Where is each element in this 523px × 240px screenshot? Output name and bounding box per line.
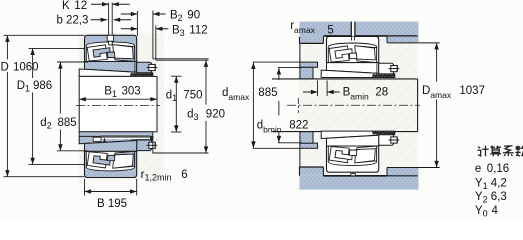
locking screw bbox=[149, 64, 155, 70]
svg-text:750: 750 bbox=[183, 89, 202, 101]
W33 groove and hole in outer ring bbox=[107, 35, 113, 41]
dim B 195 bbox=[84, 179, 86, 196]
washer tab mark bbox=[104, 138, 106, 141]
housing lower right shoulder + Da ref bbox=[386, 168, 388, 176]
guide ring bbox=[350, 150, 357, 156]
svg-text:6: 6 bbox=[181, 169, 187, 181]
right bearing upper half (outline) bbox=[321, 36, 399, 77]
dim d amax 885 bbox=[253, 61, 301, 63]
washer inset (lower) bbox=[101, 135, 150, 139]
hole extension lines bbox=[108, 3, 110, 36]
housing bore line bbox=[323, 35, 387, 37]
lock washer bbox=[134, 140, 136, 151]
housing face to shoulder vertical (lower) bbox=[299, 148, 301, 167]
left roller bbox=[329, 147, 349, 163]
svg-text:6,3: 6,3 bbox=[491, 191, 507, 203]
lock nut bbox=[137, 62, 152, 73]
housing face to shoulder vertical bbox=[299, 43, 301, 62]
svg-text:12: 12 bbox=[74, 0, 87, 12]
guide ring bbox=[108, 52, 115, 58]
housing lower bore line bbox=[323, 175, 387, 177]
lock washer bbox=[134, 62, 136, 73]
guide ring bbox=[350, 53, 357, 59]
svg-text:28: 28 bbox=[375, 87, 388, 99]
lower oil hole notch (mirror) bbox=[351, 174, 356, 176]
housing lower left shoulder bbox=[300, 166, 324, 168]
right bearing lower half (outline mirrored) bbox=[321, 131, 399, 172]
right cage patch bbox=[114, 151, 135, 168]
dim d1 750 bbox=[171, 75, 182, 77]
guide ring bbox=[108, 155, 115, 161]
lock washer bbox=[376, 135, 378, 146]
svg-text:e: e bbox=[475, 163, 481, 175]
left roller bbox=[329, 46, 349, 62]
left cage bar bbox=[93, 48, 110, 57]
adapter sleeve (tapered) bbox=[321, 70, 395, 77]
inner ring (tapered bore) bbox=[85, 141, 137, 152]
dim d3 920 bbox=[205, 60, 207, 104]
right view paper background bbox=[298, 22, 418, 188]
right roller bbox=[355, 46, 376, 60]
outer ring bbox=[327, 36, 379, 62]
right roller bbox=[113, 154, 134, 168]
sleeve thread bbox=[131, 73, 153, 76]
svg-text:885: 885 bbox=[58, 117, 77, 129]
sleeve thread bbox=[373, 74, 395, 77]
dim D1 986 bbox=[29, 47, 85, 49]
svg-text:986: 986 bbox=[33, 80, 52, 92]
dim B1 303 bbox=[79, 98, 157, 100]
svg-text:4: 4 bbox=[492, 205, 499, 217]
dim B3 112 bbox=[155, 26, 157, 61]
inner ring (tapered bore) bbox=[327, 63, 379, 74]
housing left shoulder bbox=[300, 42, 324, 44]
right view centerline bbox=[287, 104, 420, 106]
raceway cavity bbox=[86, 151, 134, 171]
dim B amin 28 bbox=[317, 81, 319, 97]
left cage bar bbox=[335, 150, 352, 159]
svg-text:0,16: 0,16 bbox=[487, 163, 509, 175]
locking screw bbox=[391, 137, 397, 143]
outer ring bbox=[85, 151, 137, 177]
lock nut bbox=[137, 140, 152, 151]
dim B2 90 bbox=[152, 11, 154, 59]
svg-text:4,2: 4,2 bbox=[491, 178, 507, 190]
left roller bbox=[87, 152, 107, 168]
svg-text:303: 303 bbox=[122, 86, 141, 98]
left roller bbox=[87, 45, 107, 61]
housing upper (blue band) bbox=[300, 22, 419, 36]
shaft abutment ring upper (blue) bbox=[300, 62, 318, 67]
lower sleeve strip upper part (blue, against bore) bbox=[79, 132, 153, 137]
inner ring (tapered bore) bbox=[85, 62, 137, 73]
housing lower (blue band) bbox=[300, 176, 419, 190]
svg-text:1060: 1060 bbox=[13, 62, 39, 74]
left view paper background bbox=[78, 33, 164, 180]
lock nut bbox=[379, 135, 394, 146]
centerline left view bbox=[76, 105, 160, 107]
housing right shoulder + Da ref bbox=[386, 36, 388, 43]
lock washer bbox=[376, 63, 378, 74]
right roller bbox=[113, 45, 134, 59]
right cage patch bbox=[114, 45, 135, 62]
dim b 22,3 bbox=[91, 19, 108, 21]
raceway cavity bbox=[86, 42, 134, 62]
right cage patch bbox=[356, 46, 377, 63]
shaft abutment ring lower (blue) bbox=[300, 143, 318, 148]
svg-text:K: K bbox=[62, 0, 70, 12]
outer ring bbox=[85, 35, 137, 61]
dim D 1060 bbox=[4, 34, 85, 36]
svg-text:1037: 1037 bbox=[459, 85, 485, 97]
shaft end face bbox=[417, 79, 419, 132]
left cage bar bbox=[335, 49, 352, 58]
svg-text:b: b bbox=[57, 15, 63, 27]
adapter sleeve (tapered) bbox=[321, 131, 395, 138]
sleeve slit notch bbox=[93, 137, 101, 141]
locking screw bbox=[149, 142, 155, 148]
svg-text:D: D bbox=[1, 62, 9, 74]
outer ring bbox=[327, 146, 379, 172]
shaft surfaces bbox=[272, 78, 418, 80]
svg-text:822: 822 bbox=[289, 119, 308, 131]
housing oil hole (white slot in band) bbox=[351, 22, 355, 36]
sleeve bore (shaft seat) rectangle bbox=[79, 76, 157, 131]
dim K 12 bbox=[91, 3, 109, 5]
locking screw bbox=[391, 66, 397, 72]
svg-text:112: 112 bbox=[189, 24, 207, 36]
adapter sleeve (tapered) bbox=[79, 136, 153, 143]
adapter sleeve (tapered) bbox=[79, 69, 153, 76]
sleeve thread bbox=[373, 131, 395, 134]
svg-text:90: 90 bbox=[187, 10, 200, 22]
svg-text:920: 920 bbox=[206, 108, 225, 120]
table heading (hanzi drawn as strokes) bbox=[478, 147, 480, 149]
dim D amax 1037 bbox=[436, 43, 438, 82]
sleeve thread bbox=[131, 137, 153, 140]
dim d2 885 bbox=[57, 61, 88, 63]
svg-text:22,3: 22,3 bbox=[66, 15, 88, 27]
dim d bmin 822 bbox=[278, 67, 302, 69]
right roller bbox=[355, 149, 376, 163]
right cage patch bbox=[356, 146, 377, 163]
inner ring (tapered bore) bbox=[327, 135, 379, 146]
svg-text:B 195: B 195 bbox=[97, 198, 127, 210]
oil hole into outer ring bbox=[352, 37, 355, 41]
svg-text:5: 5 bbox=[327, 24, 333, 36]
lock nut bbox=[379, 63, 394, 74]
svg-text:885: 885 bbox=[258, 87, 277, 99]
raceway cavity bbox=[328, 43, 376, 63]
left cage bar bbox=[93, 156, 110, 165]
raceway cavity bbox=[328, 146, 376, 166]
